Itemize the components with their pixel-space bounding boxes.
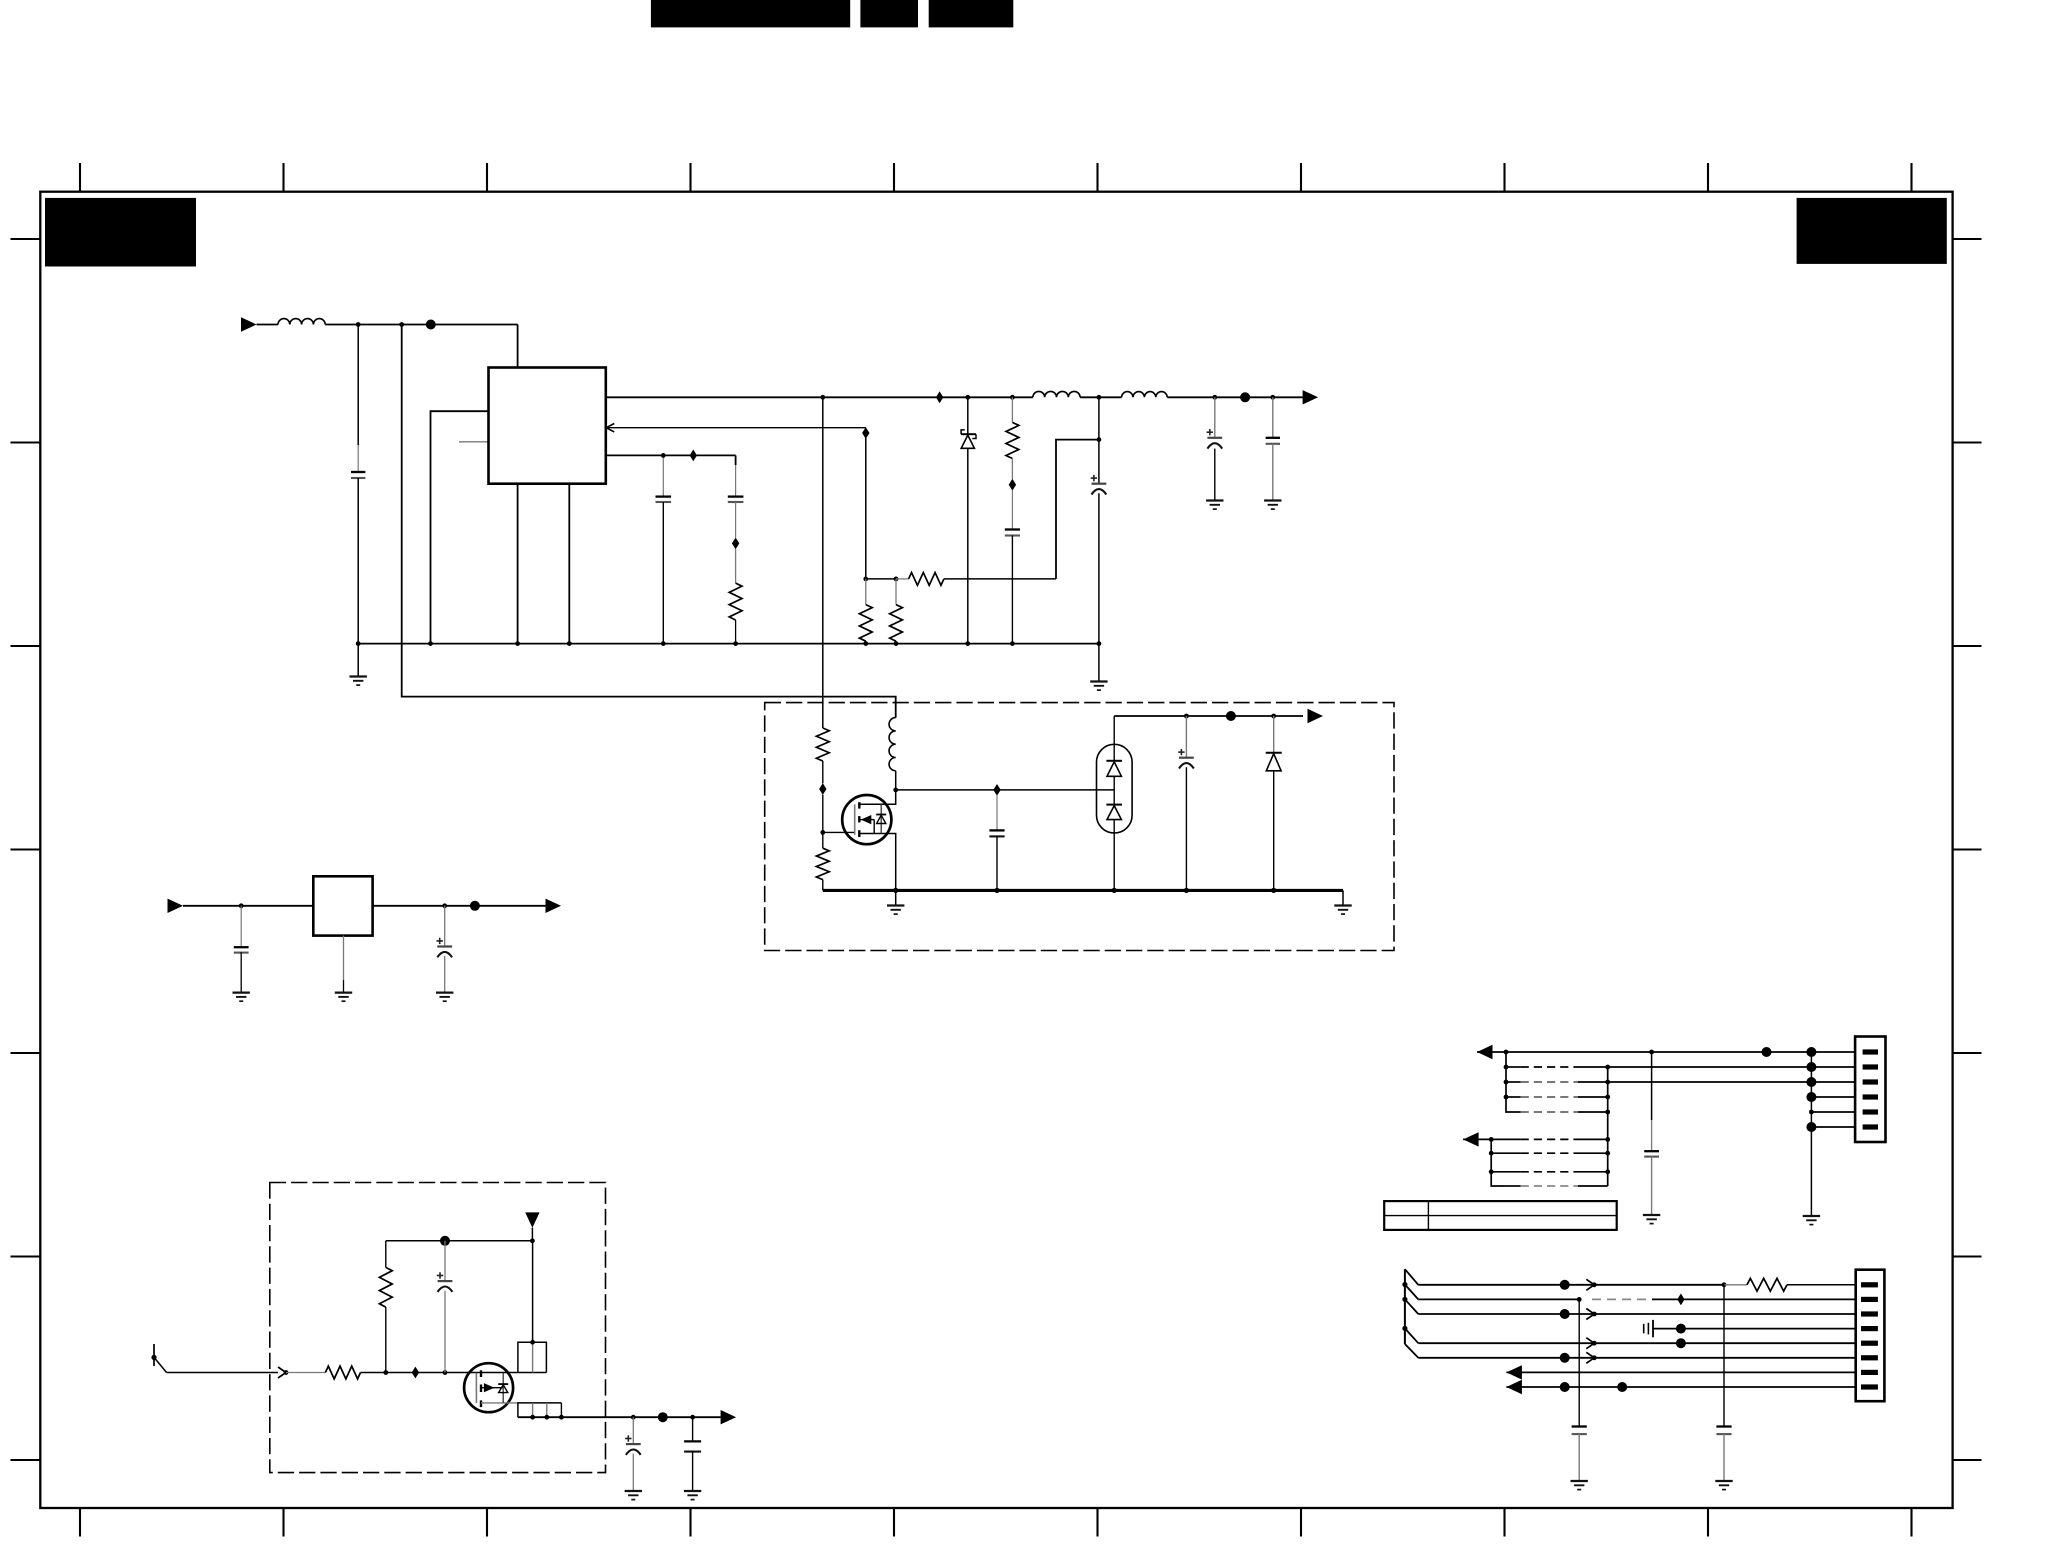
node test point [1560, 1309, 1570, 1319]
wire w2 [1418, 1298, 1579, 1300]
capacitor C17 [1723, 1285, 1725, 1427]
junction [284, 1370, 289, 1375]
junction [1605, 1169, 1610, 1174]
resistor R7 [816, 728, 829, 761]
node test point [658, 1412, 668, 1422]
resistor R3 [896, 578, 909, 580]
node test point [1240, 392, 1250, 402]
chevron [1586, 1309, 1594, 1320]
ground [1643, 1214, 1660, 1216]
ground [1206, 499, 1223, 501]
junction [1809, 1110, 1814, 1115]
resistor R10 [385, 1307, 387, 1372]
wire gate net [386, 1372, 477, 1374]
capacitor C13 [1651, 1052, 1653, 1120]
ground [335, 991, 352, 993]
transistor Q2 MOSFET [464, 1363, 513, 1412]
resistor R8 [822, 832, 824, 848]
ground [1098, 644, 1100, 682]
junction [356, 641, 361, 646]
resistor R2 [1011, 397, 1013, 422]
wire w5 [1418, 1342, 1855, 1344]
wire w3 [1418, 1313, 1855, 1315]
junction Q1 gate node [820, 830, 825, 835]
node marker [412, 1367, 419, 1379]
junction [965, 641, 970, 646]
resistor R4 [865, 579, 867, 605]
left bus 2 [1491, 1139, 1505, 1186]
junction [1592, 1282, 1597, 1287]
transistor Q1 MOSFET [842, 795, 891, 844]
wire w8 [1506, 1386, 1855, 1388]
connector CN1 [1855, 1037, 1885, 1143]
node marker [732, 538, 739, 550]
capacitor C3 [735, 455, 737, 465]
chevron [278, 1367, 286, 1378]
junction [1489, 1151, 1494, 1156]
wire regulator output [373, 905, 546, 907]
dashed wire rowD [1505, 1185, 1521, 1187]
stub row6 [1811, 1126, 1855, 1128]
node test point [1806, 1047, 1816, 1057]
node test point [470, 901, 480, 911]
node test point [1806, 1077, 1816, 1087]
resistor R9 [286, 1372, 325, 1374]
wire input net [257, 324, 279, 326]
junction [863, 577, 868, 582]
wire to flyback primary [402, 325, 896, 718]
wire row1 [1477, 1051, 1855, 1053]
capacitor C2 [662, 455, 664, 496]
ground [1803, 1215, 1820, 1217]
node marker [690, 450, 697, 462]
wire input net to IC [325, 324, 517, 326]
wire aux line into block [822, 397, 824, 728]
capacitor C8 [240, 906, 242, 947]
junction [1271, 888, 1276, 893]
junction [1592, 1312, 1597, 1317]
ground [357, 644, 359, 677]
table block [1384, 1201, 1617, 1230]
wire switched output net [518, 1416, 721, 1418]
junction [530, 1415, 535, 1420]
junction [239, 903, 244, 908]
junction [965, 395, 970, 400]
capacitor C4 electrolytic [1214, 397, 1216, 437]
junction [1605, 1137, 1610, 1142]
redacted header text block 3 [929, 0, 1014, 27]
junction [1184, 888, 1189, 893]
flyback ground bus [823, 889, 1343, 892]
cable bundle [1404, 1269, 1406, 1344]
chevron [1586, 1338, 1594, 1349]
capacitor C15 electrolytic [1098, 397, 1100, 483]
wire w1 [1418, 1284, 1724, 1286]
zener diode D1 [967, 397, 969, 434]
junction [1489, 1137, 1494, 1142]
dashed block boundary flyback converter [765, 703, 1394, 951]
node marker [1009, 479, 1016, 491]
junction [894, 641, 899, 646]
resistor R5 [895, 579, 897, 605]
power rail symbol [531, 1228, 533, 1241]
ground [1264, 499, 1281, 501]
arrow w8 [1506, 1380, 1522, 1394]
node marker [1677, 1294, 1684, 1306]
node test point [1806, 1092, 1816, 1102]
feedback arrow into IC [606, 424, 614, 432]
junction [1592, 1341, 1597, 1346]
junction [442, 903, 447, 908]
junction [1010, 395, 1015, 400]
dashed wire rowC [1491, 1171, 1520, 1173]
wire gate input [167, 1372, 278, 1374]
input pin symbol [153, 1344, 155, 1366]
wire supply to P1 [532, 1241, 534, 1342]
junction [1504, 1050, 1509, 1055]
wire output net [1080, 396, 1122, 398]
junction [1489, 1169, 1494, 1174]
capacitor C10 electrolytic [444, 1241, 446, 1281]
junction [1097, 641, 1102, 646]
junction [567, 641, 572, 646]
package outline P2 [518, 1403, 562, 1417]
chevron [1586, 1352, 1594, 1363]
junction [1577, 1297, 1582, 1302]
redacted label top-right [1797, 198, 1947, 264]
junction [1605, 1065, 1610, 1070]
wire w6 [1418, 1357, 1855, 1359]
IC pin stub [459, 441, 489, 443]
junction [530, 1238, 535, 1243]
connector CN2 [1856, 1270, 1885, 1402]
node test point [1560, 1280, 1570, 1290]
junction [661, 453, 666, 458]
diode D3 [1273, 716, 1275, 753]
input arrow [168, 899, 184, 913]
inductor L4 [1122, 392, 1168, 398]
inductor L1 [278, 319, 325, 325]
inductor L2 [1033, 391, 1080, 397]
output arrow [546, 899, 562, 913]
dashed wire row4 [1506, 1096, 1521, 1098]
ground [1571, 1480, 1588, 1482]
right bus to ground [1810, 1052, 1812, 1216]
node test point [1617, 1382, 1627, 1392]
capacitor C12 [692, 1417, 694, 1441]
junction [443, 1370, 448, 1375]
dashed wire row2 [1506, 1066, 1521, 1068]
junction [428, 641, 433, 646]
capacitor C11 electrolytic [632, 1417, 634, 1444]
junction [1270, 395, 1275, 400]
junction Q1 drain node [893, 788, 898, 793]
redacted header text block 1 [651, 0, 850, 27]
ground [625, 1490, 642, 1492]
junction [631, 1415, 636, 1420]
chassis ground w4 [1643, 1324, 1645, 1333]
node test point [1806, 1122, 1816, 1132]
junction [544, 1415, 549, 1420]
wire w4 [1653, 1328, 1856, 1330]
node test point [1560, 1353, 1570, 1363]
output arrow [1308, 709, 1324, 723]
wire feedback divider [865, 438, 867, 579]
junction [1504, 1080, 1509, 1085]
wire IC pin3 net [606, 454, 736, 456]
wire row2 to CN1 [1608, 1066, 1855, 1068]
ground bus [358, 643, 1099, 645]
dashed wire row3 [1506, 1081, 1521, 1083]
node marker [993, 784, 1000, 796]
junction [1010, 641, 1015, 646]
junction [1605, 1080, 1610, 1085]
capacitor C14 [1011, 490, 1013, 529]
junction [733, 641, 738, 646]
inductor L3 flyback primary [889, 718, 896, 771]
junction [1112, 888, 1117, 893]
wire drain net [896, 789, 1114, 791]
junction [1504, 1095, 1509, 1100]
junction [1097, 437, 1102, 442]
wire IC bottom pin 2 [568, 484, 570, 644]
junction [863, 641, 868, 646]
junction [1212, 395, 1217, 400]
wire divider to output [1056, 440, 1099, 579]
junction [1184, 714, 1189, 719]
node marker [936, 391, 943, 403]
redacted label top-left [45, 198, 196, 267]
stub row5 [1811, 1111, 1855, 1113]
node test point [1560, 1382, 1570, 1392]
capacitor C7 electrolytic [1185, 716, 1187, 758]
junction [1605, 1110, 1610, 1115]
wire output net to arrow [1167, 396, 1302, 398]
op-amp U1 SMPS controller IC [489, 368, 606, 484]
output arrow [721, 1410, 737, 1424]
ground [684, 1490, 701, 1492]
dual diode D2 [1097, 744, 1133, 833]
capacitor C16 [1578, 1299, 1580, 1426]
resistor R6 [735, 549, 737, 583]
junction [399, 322, 404, 327]
junction [1504, 1065, 1509, 1070]
chevron [1586, 1279, 1594, 1290]
dashed block boundary load switch [270, 1183, 606, 1473]
capacitor C5 [1272, 397, 1274, 437]
junction [1605, 1095, 1610, 1100]
junction [559, 1415, 564, 1420]
node test point [1762, 1047, 1772, 1057]
node test point [1806, 1062, 1816, 1072]
junction [893, 888, 898, 893]
junction [661, 641, 666, 646]
output arrow [1303, 390, 1319, 404]
mid bus [1607, 1067, 1609, 1186]
wire w7 [1506, 1371, 1855, 1373]
junction [1271, 714, 1276, 719]
wire IC pin to ground bus [431, 411, 489, 643]
node test point [426, 320, 436, 330]
arrow w7 [1506, 1365, 1522, 1379]
capacitor C6 [996, 796, 998, 831]
ground [895, 890, 897, 905]
ground [1715, 1480, 1732, 1482]
node test point [440, 1236, 450, 1246]
package outline P1 [518, 1342, 547, 1372]
junction [1592, 1355, 1597, 1360]
wire IC bottom pin 1 [517, 484, 519, 644]
node marker [819, 783, 826, 795]
junction [515, 641, 520, 646]
wire pullup rail [386, 1240, 533, 1242]
input arrow [241, 317, 257, 331]
wire rowA [1463, 1138, 1491, 1140]
regulator ground pin [343, 936, 345, 980]
node test point [1676, 1338, 1686, 1348]
dashed wire rowB [1491, 1152, 1520, 1154]
wire regulator input [183, 905, 313, 907]
junction [994, 888, 999, 893]
wire feedback net [606, 427, 866, 429]
junction [690, 1415, 695, 1420]
capacitor C1 [357, 325, 359, 446]
stub row4 [1811, 1096, 1855, 1098]
dashed wire row5 [1521, 1111, 1578, 1113]
junction [530, 1340, 535, 1345]
junction [383, 1370, 388, 1375]
left bus [1506, 1052, 1521, 1112]
node marker [862, 427, 869, 439]
node test point [1226, 711, 1236, 721]
ground [233, 991, 250, 993]
node test point [1676, 1324, 1686, 1334]
redacted header text block 2 [860, 0, 918, 27]
junction [1722, 1282, 1727, 1287]
junction [894, 577, 899, 582]
ground [436, 991, 453, 993]
resistor R11 [1724, 1284, 1747, 1286]
junction [1097, 395, 1102, 400]
junction [1605, 1151, 1610, 1156]
wire switch output net [606, 396, 1033, 398]
dashed wire rowA [1491, 1138, 1520, 1140]
wire row3 to CN1 [1608, 1081, 1855, 1083]
capacitor C9 electrolytic [444, 906, 446, 947]
voltage regulator U2 [313, 876, 372, 935]
wire flyback output net [1114, 715, 1303, 717]
arrow net rowA [1463, 1132, 1479, 1146]
junction [1649, 1050, 1654, 1055]
ground [1342, 890, 1344, 905]
arrow net row1 [1477, 1045, 1493, 1059]
junction [820, 395, 825, 400]
junction [356, 322, 361, 327]
